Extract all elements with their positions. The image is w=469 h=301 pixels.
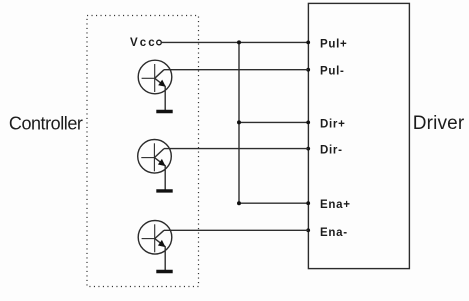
svg-text:Pul-: Pul-	[320, 66, 345, 78]
wire Q2 collector to Dir-	[164, 148, 308, 150]
ground for Q3	[156, 270, 172, 273]
svg-text:Vcc: Vcc	[130, 37, 157, 49]
pin label Dir-	[320, 145, 343, 157]
svg-text:Controller: Controller	[9, 114, 83, 134]
pin label Ena-	[320, 227, 348, 239]
pin label Pul-	[320, 66, 345, 78]
pin node Pul+ at driver edge	[306, 41, 310, 45]
transistor Q2	[138, 140, 172, 190]
svg-text:Dir-: Dir-	[320, 145, 343, 157]
ground for Q2	[156, 189, 172, 192]
controller dotted block	[87, 16, 199, 287]
pin label Dir+	[320, 118, 346, 130]
transistor Q3	[138, 221, 172, 271]
wire Vcc to Pul+	[161, 41, 308, 43]
junction node on bus at Dir+	[237, 120, 241, 124]
label Controller	[9, 114, 83, 134]
svg-text:Ena-: Ena-	[320, 227, 348, 239]
label Vcc	[130, 37, 157, 49]
wire Q3 collector to Ena-	[164, 229, 308, 231]
wire vertical bus Vcc to Dir+/Ena+	[238, 42, 240, 203]
svg-text:Driver: Driver	[413, 113, 465, 134]
svg-text:Ena+: Ena+	[320, 199, 351, 211]
pin node Pul- at driver edge	[306, 68, 310, 72]
transistor Q1	[138, 60, 172, 110]
junction node on bus at Ena+	[237, 201, 241, 205]
pin node Dir- at driver edge	[306, 147, 310, 151]
ground for Q1	[156, 110, 172, 113]
driver box	[308, 3, 409, 268]
pin node Dir+ at driver edge	[306, 121, 310, 125]
wire Ena+ from bus to driver	[239, 202, 308, 204]
wire Dir+ from bus to driver	[239, 121, 308, 123]
Vcc terminal (open circle)	[157, 40, 162, 45]
svg-text:Dir+: Dir+	[320, 118, 346, 130]
wire Q1 collector to Pul-	[164, 69, 308, 71]
svg-text:Pul+: Pul+	[320, 38, 347, 50]
junction node on bus at Vcc wire	[237, 40, 241, 44]
label Driver	[413, 113, 465, 134]
pin label Pul+	[320, 38, 347, 50]
pin label Ena+	[320, 199, 351, 211]
pin node Ena- at driver edge	[306, 228, 310, 232]
pin node Ena+ at driver edge	[306, 201, 310, 205]
